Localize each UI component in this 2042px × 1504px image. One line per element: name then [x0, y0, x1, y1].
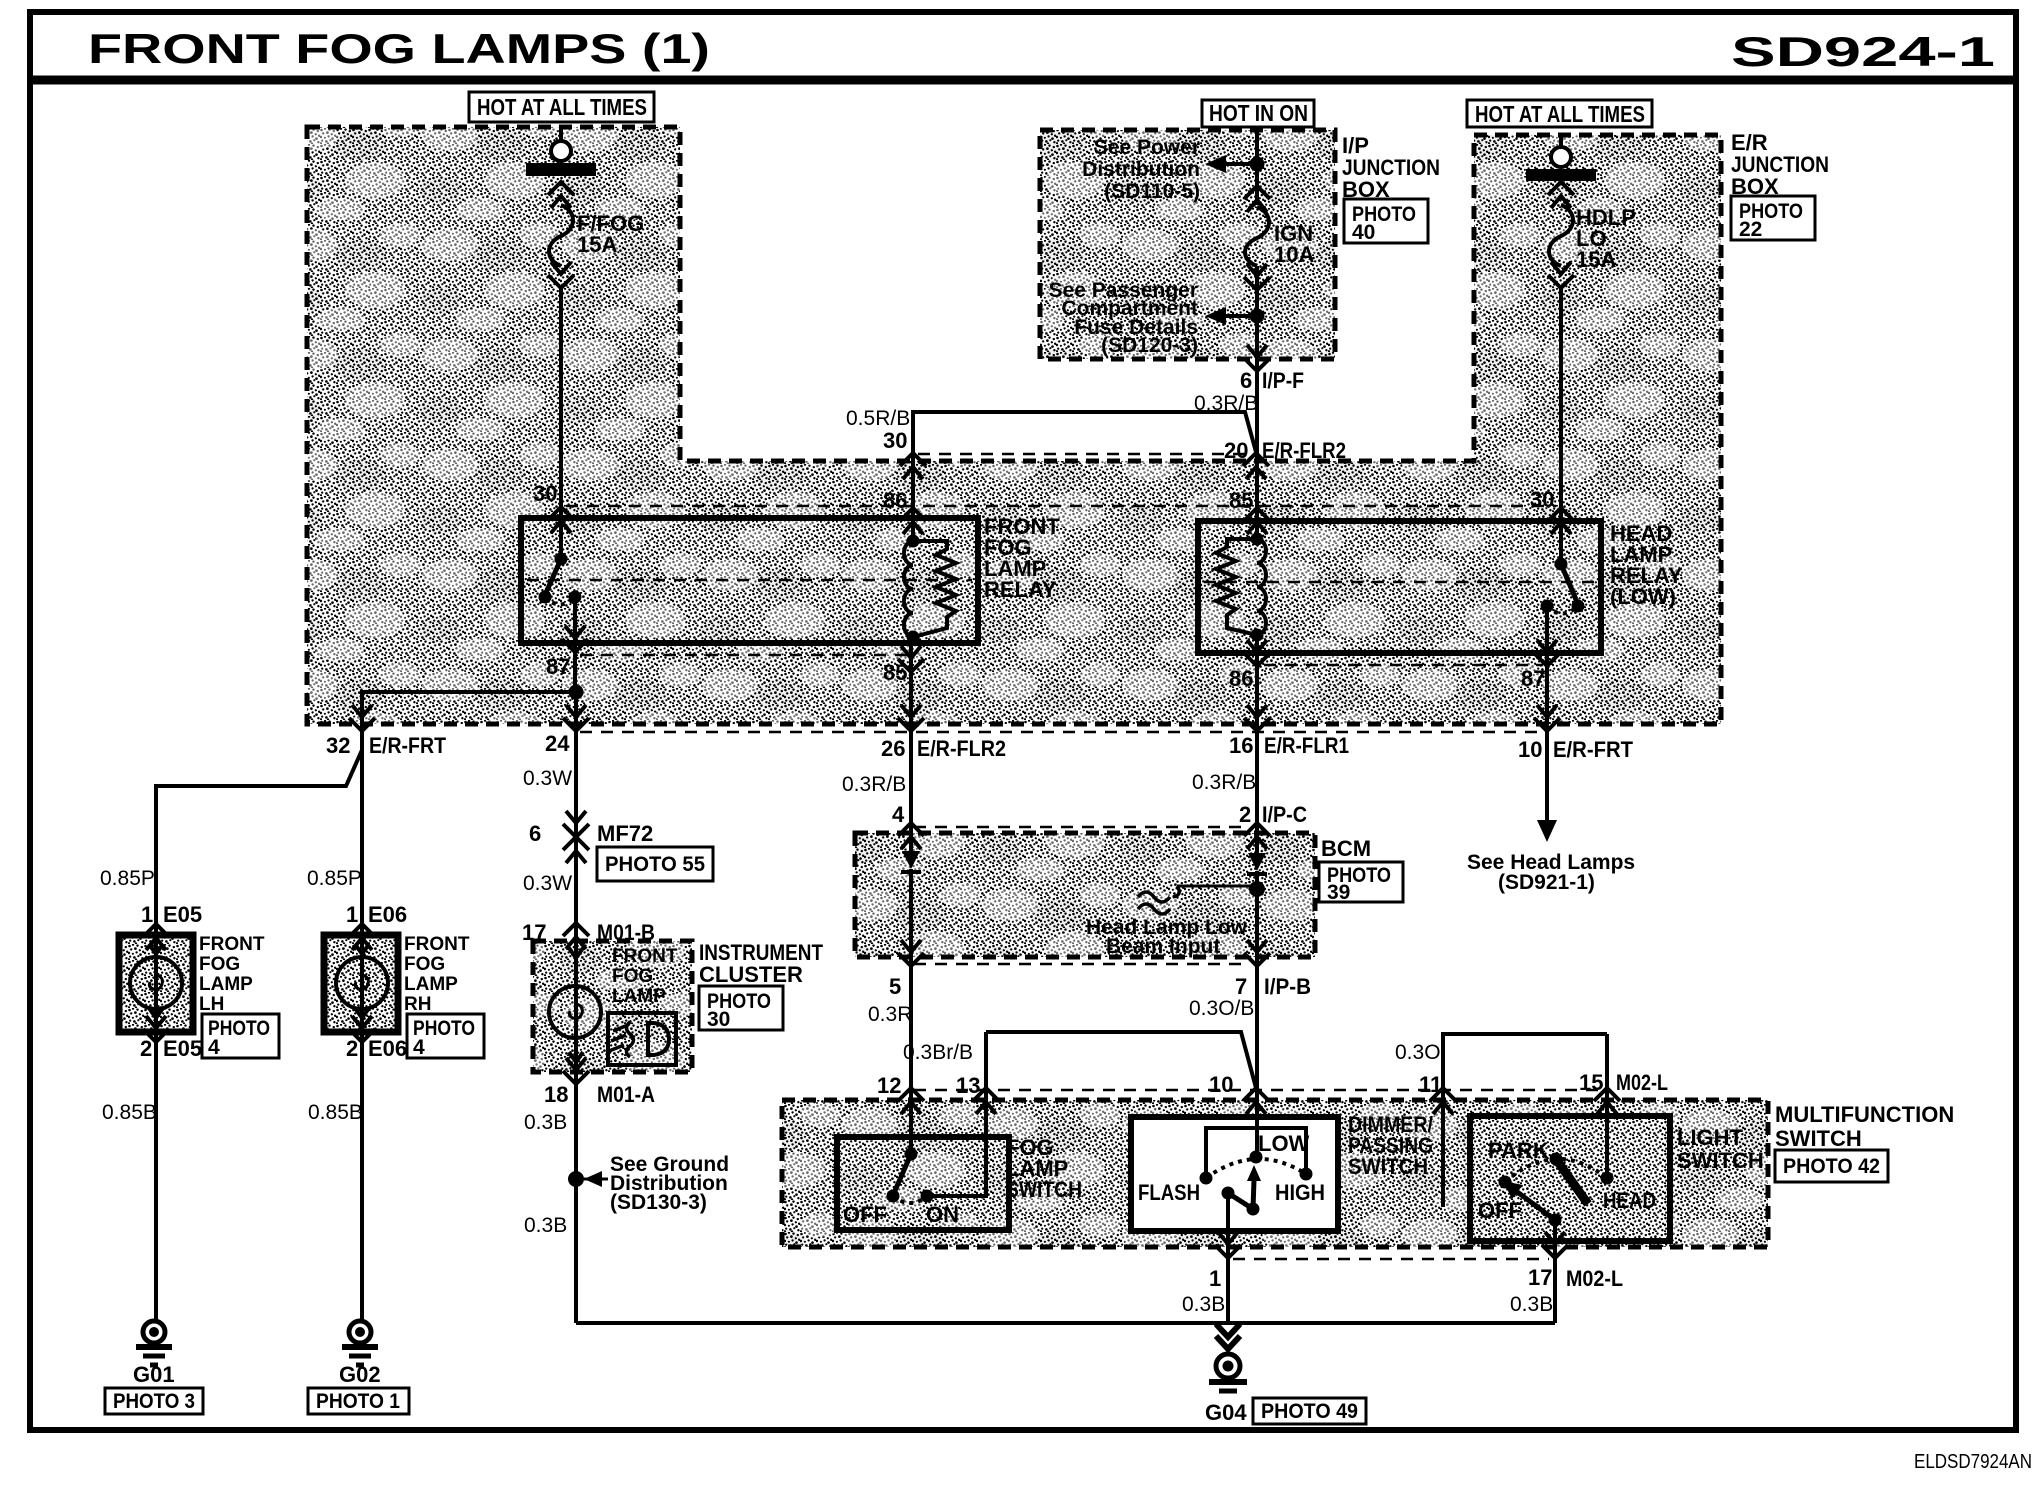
svg-text:HEAD: HEAD — [1603, 1188, 1656, 1213]
svg-text:0.5R/B: 0.5R/B — [846, 407, 910, 430]
head lamp low beam input squiggle — [1138, 886, 1179, 914]
relay internal dashed divider (fog) — [527, 579, 972, 581]
instrument cluster front fog lamp bulb — [549, 948, 601, 1062]
connector pin 10 E/R-FRT — [1534, 705, 1560, 731]
connector pin 17 M02-L out of multifunction switch — [1542, 1232, 1568, 1258]
wire: head relay switch output pin 87 to E/R-FRT pin 10 — [1545, 606, 1549, 765]
svg-text:4: 4 — [413, 1036, 425, 1059]
svg-text:2: 2 — [140, 1036, 152, 1061]
node: fog relay output junction — [569, 685, 584, 700]
svg-text:30: 30 — [707, 1008, 730, 1031]
connector pin 1 E05 — [143, 924, 169, 950]
thin dashed connector row line E/R-FLR2 pins 30/20 — [918, 453, 1250, 455]
svg-text:RH: RH — [404, 994, 431, 1015]
svg-text:HOT AT ALL TIMES: HOT AT ALL TIMES — [477, 94, 647, 120]
svg-text:SWITCH: SWITCH — [1677, 1148, 1764, 1173]
instrument cluster region — [533, 941, 692, 1072]
fog lamp switch blade — [894, 1154, 911, 1193]
svg-text:E05: E05 — [163, 1036, 202, 1061]
svg-text:2: 2 — [346, 1036, 358, 1061]
connector pin 2 E05 — [143, 1016, 169, 1042]
svg-text:PHOTO 49: PHOTO 49 — [1261, 1400, 1358, 1423]
node: I/P power distribution tap — [1250, 157, 1265, 172]
svg-text:ON: ON — [926, 1202, 959, 1227]
wire: RH lamp internal — [360, 935, 364, 1032]
svg-text:86: 86 — [883, 488, 907, 513]
connector pin 30 into fog relay — [548, 507, 574, 533]
svg-text:(LOW): (LOW) — [1610, 584, 1676, 609]
svg-text:15: 15 — [1579, 1070, 1603, 1095]
connector pin 86 out of head relay — [1244, 640, 1270, 666]
wire: F/FOG fuse feed stub — [559, 127, 563, 141]
wire: see head lamps arrow lead — [1545, 765, 1549, 824]
svg-text:I/P-B: I/P-B — [1264, 974, 1311, 999]
front fog lamp RH box — [324, 935, 398, 1032]
multifunction switch region — [782, 1100, 1768, 1247]
wire: I/P junction feed to IGN fuse — [1255, 130, 1259, 205]
svg-text:M01-B: M01-B — [597, 920, 655, 945]
thin dashed connector row E/R pins 24/26/16/10 — [580, 731, 1540, 733]
fog relay switch throw arc — [545, 597, 575, 605]
svg-text:26: 26 — [881, 736, 905, 761]
svg-text:12: 12 — [877, 1073, 901, 1098]
svg-text:30: 30 — [883, 428, 907, 453]
svg-text:PARK: PARK — [1488, 1138, 1549, 1163]
connector pin 16 E/R-FLR1 — [1244, 705, 1270, 731]
svg-text:85: 85 — [883, 660, 907, 685]
svg-text:G04: G04 — [1205, 1400, 1247, 1425]
front fog lamp LH bulb — [130, 944, 182, 1018]
svg-text:See Power: See Power — [1094, 136, 1200, 159]
wire: see power distribution arrow lead — [1224, 162, 1257, 166]
svg-text:FOG: FOG — [612, 966, 653, 987]
photo box PHOTO 40 — [1344, 199, 1428, 243]
ground G01 — [136, 1321, 172, 1365]
connector pin 6 I/P-F — [1244, 345, 1270, 371]
svg-text:E/R-FLR2: E/R-FLR2 — [1262, 438, 1346, 463]
svg-text:1: 1 — [1209, 1266, 1221, 1291]
wire: 0.5R/B from fog relay pin 86 up and over to pin 20 — [913, 412, 1256, 458]
wire: head relay coil output pin 86 down through pin 16 into BCM pin 2 — [1255, 635, 1259, 855]
connector pin 30 E/R-FLR2 (0.5R/B) — [900, 453, 926, 479]
svg-text:4: 4 — [208, 1036, 220, 1059]
svg-text:0.3W: 0.3W — [523, 872, 572, 895]
connector pin 87 out of head relay — [1534, 640, 1560, 666]
svg-text:ELDSD7924AN: ELDSD7924AN — [1914, 1451, 2032, 1473]
svg-text:LAMP: LAMP — [199, 974, 253, 995]
svg-text:0.3R: 0.3R — [868, 1003, 912, 1026]
svg-text:E05: E05 — [163, 902, 202, 927]
label box HOT AT ALL TIMES (left) — [469, 92, 654, 122]
node: BCM head lamp low beam input — [1249, 881, 1265, 897]
connector pin 2 E06 — [349, 1016, 375, 1042]
connector pin 10 — [1243, 1088, 1269, 1114]
photo box PHOTO 3 — [105, 1388, 203, 1414]
svg-text:24: 24 — [545, 731, 570, 756]
svg-text:Beam Input: Beam Input — [1106, 935, 1220, 958]
svg-text:(SD120-3): (SD120-3) — [1101, 334, 1198, 357]
node: I/P fuse details tap — [1250, 309, 1265, 324]
head relay switch common node — [1555, 558, 1568, 571]
head relay switch blade — [1561, 564, 1577, 602]
front fog lamp RH bulb — [336, 944, 388, 1018]
wire: fog switch ON contact to pin 13, up to 0.3Br/B run — [927, 1032, 986, 1196]
fog relay switch common node — [555, 553, 568, 566]
connector pin 12 — [898, 1088, 924, 1114]
connector pin 85 into head relay — [1244, 508, 1270, 534]
connector pin 85 out of fog relay — [898, 646, 924, 672]
wire: see passenger compartment arrow lead — [1224, 314, 1257, 318]
svg-text:E/R-FLR2: E/R-FLR2 — [917, 736, 1006, 761]
svg-text:PHOTO 55: PHOTO 55 — [605, 853, 705, 876]
fog relay coil nodes — [907, 535, 920, 548]
wire: 0.85B LH lamp to ground G01 — [154, 1032, 158, 1321]
svg-text:OFF: OFF — [1478, 1198, 1522, 1223]
wire: BCM diode output 0.3R down through pin 5 and pin 12 to fog switch — [909, 869, 913, 1154]
svg-text:SWITCH: SWITCH — [1348, 1154, 1428, 1179]
svg-text:32: 32 — [326, 733, 350, 758]
connector pin 30 into head relay — [1548, 508, 1574, 534]
connector pin 1 out of multifunction switch — [1215, 1232, 1241, 1258]
engine room shaded zone (fuse/relay stipple region) — [307, 127, 1721, 724]
svg-text:6: 6 — [1240, 368, 1252, 393]
svg-text:I/P-F: I/P-F — [1262, 368, 1304, 393]
wire: fog relay coil output pin 85 down through pin 26 into BCM pin 4 — [909, 637, 913, 853]
svg-text:LAMP: LAMP — [612, 986, 666, 1007]
svg-text:(SD921-1): (SD921-1) — [1498, 871, 1595, 894]
dimmer switch throw arc — [1206, 1159, 1306, 1178]
connector pin 7 I/P-B out of BCM — [1244, 940, 1270, 966]
svg-text:FLASH: FLASH — [1138, 1180, 1200, 1205]
svg-text:OFF: OFF — [843, 1202, 887, 1227]
diode BCM right — [1247, 853, 1267, 874]
arrow to see ground distribution — [584, 1171, 602, 1187]
I/P junction box region — [1040, 130, 1335, 359]
connector pin 20 E/R-FLR2 — [1243, 453, 1269, 479]
svg-text:PHOTO 1: PHOTO 1 — [316, 1390, 400, 1413]
photo box PHOTO 1 — [308, 1388, 409, 1414]
fog lamp switch throw arc — [893, 1196, 927, 1203]
svg-text:5: 5 — [889, 974, 901, 999]
svg-text:2: 2 — [1239, 802, 1251, 827]
head relay coil — [1257, 539, 1266, 635]
svg-text:0.3R/B: 0.3R/B — [842, 773, 906, 796]
arrow to see passenger compartment fuse details — [1205, 307, 1226, 325]
svg-text:PHOTO 3: PHOTO 3 — [113, 1390, 195, 1413]
fog lamp indicator icon box — [608, 1013, 676, 1065]
head relay coil nodes — [1251, 533, 1264, 546]
svg-text:0.85B: 0.85B — [308, 1101, 363, 1124]
svg-text:1: 1 — [141, 902, 153, 927]
wire: IGN fuse output through pin 6, pin 20 into head relay pin 85 — [1255, 266, 1259, 539]
svg-text:FRONT: FRONT — [404, 934, 470, 955]
svg-text:0.3B: 0.3B — [524, 1111, 567, 1134]
wire: 0.3Br/B horizontal run to dimmer pin 10 — [986, 1032, 1256, 1088]
arrow to see power distribution — [1205, 155, 1226, 173]
svg-text:17: 17 — [1528, 1265, 1552, 1290]
svg-text:0.3Br/B: 0.3Br/B — [903, 1041, 973, 1064]
svg-text:10: 10 — [1518, 737, 1542, 762]
fuse F/FOG 15A — [548, 182, 574, 288]
connector pin 17 M01-B — [563, 923, 589, 949]
wire: 0.85B RH lamp to ground G02 — [360, 1032, 364, 1321]
connector pin 4 into BCM — [898, 823, 924, 849]
fog relay coil — [904, 541, 913, 637]
fog lamp switch contacts — [887, 1190, 900, 1203]
svg-text:E/R-FRT: E/R-FRT — [1553, 737, 1634, 762]
svg-text:0.3R/B: 0.3R/B — [1194, 392, 1258, 415]
svg-text:0.3O: 0.3O — [1395, 1041, 1441, 1064]
svg-text:0.3W: 0.3W — [523, 767, 572, 790]
svg-text:SWITCH: SWITCH — [1006, 1177, 1082, 1202]
svg-text:0.85P: 0.85P — [307, 867, 362, 890]
svg-text:LIGHT: LIGHT — [1677, 1125, 1744, 1150]
photo box PHOTO 30 — [699, 986, 783, 1030]
svg-text:I/P-C: I/P-C — [1262, 802, 1307, 827]
wire: 0.3O run from dimmer pin 11 over to light switch pin 15 — [1443, 1034, 1607, 1207]
connector pin 13 — [973, 1088, 999, 1114]
svg-text:G02: G02 — [339, 1362, 381, 1387]
svg-text:10: 10 — [1209, 1072, 1233, 1097]
connector pin 24 — [563, 705, 589, 731]
svg-text:0.3B: 0.3B — [1182, 1293, 1225, 1316]
connector pin 32 E/R-FRT — [349, 705, 375, 731]
dimmer/passing switch box — [1131, 1117, 1338, 1231]
thin dashed row below head relay pins 86/87 — [1264, 664, 1543, 666]
wire: 0.3B ground bus to G04 — [576, 1321, 1555, 1325]
node: see ground distribution junction — [568, 1171, 584, 1187]
svg-text:87: 87 — [1521, 666, 1545, 691]
thin dashed connector row multifunction pins 12/13/10/11/15 — [914, 1089, 1602, 1091]
svg-text:39: 39 — [1327, 881, 1350, 904]
svg-text:Distribution: Distribution — [1082, 158, 1200, 181]
wire: light switch HEAD contact feed from pin 15 — [1605, 1034, 1609, 1178]
svg-text:0.3O/B: 0.3O/B — [1189, 997, 1254, 1020]
dimmer switch blade arrow — [1247, 1165, 1261, 1209]
dimmer switch contacts FLASH/LOW/HIGH — [1200, 1172, 1213, 1185]
label FRONT FOG LAMP LH — [199, 934, 678, 1015]
light switch thick blade — [1558, 1162, 1588, 1204]
title separator thick bar — [27, 76, 2018, 85]
svg-text:FOG: FOG — [199, 954, 240, 975]
svg-text:HOT AT ALL TIMES: HOT AT ALL TIMES — [1475, 101, 1645, 127]
fog relay resistor — [913, 541, 956, 637]
connector pin 1 E06 — [349, 924, 375, 950]
svg-text:20: 20 — [1224, 438, 1248, 463]
svg-text:4: 4 — [892, 802, 905, 827]
head relay resistor — [1216, 539, 1257, 635]
fuse IGN 10A — [1244, 186, 1270, 290]
svg-text:FRONT FOG LAMPS (1): FRONT FOG LAMPS (1) — [88, 25, 710, 72]
svg-text:30: 30 — [1530, 487, 1554, 512]
svg-text:PHOTO 42: PHOTO 42 — [1783, 1155, 1880, 1178]
svg-text:LAMP: LAMP — [404, 974, 458, 995]
relay internal dashed divider (head) — [1204, 581, 1595, 583]
wire: see ground distribution arrow lead — [584, 1178, 608, 1181]
photo box PHOTO 4 (LH) — [202, 1014, 279, 1058]
ground G04 — [1209, 1354, 1247, 1391]
wire: dimmer wiper to pin 1 and ground bus — [1226, 1193, 1230, 1323]
svg-text:15A: 15A — [577, 232, 617, 257]
svg-text:30: 30 — [533, 481, 557, 506]
connector pin 18 M01-A — [563, 1058, 589, 1084]
light switch pivot — [1549, 1214, 1562, 1227]
label box HOT AT ALL TIMES (right) — [1467, 100, 1652, 127]
svg-text:85: 85 — [1229, 488, 1253, 513]
wire: 0.85P RH lamp column — [360, 750, 364, 935]
thin dashed connector row BCM pins 5/7 — [914, 963, 1250, 965]
fog lamp switch common node — [905, 1148, 918, 1161]
thin dashed row below fog relay pins 87/85 — [580, 654, 910, 656]
front fog lamp relay box — [521, 518, 978, 643]
svg-text:0.3B: 0.3B — [524, 1214, 567, 1237]
svg-text:87: 87 — [546, 654, 570, 679]
wire: BCM head lamp low beam input link — [1177, 885, 1257, 888]
svg-text:0.3B: 0.3B — [1510, 1293, 1553, 1316]
wire: fog relay pin 86 entry — [911, 458, 915, 541]
svg-text:10A: 10A — [1274, 242, 1314, 267]
photo box PHOTO 22 — [1731, 196, 1815, 240]
svg-text:M02-L: M02-L — [1616, 1070, 1668, 1095]
svg-text:1: 1 — [346, 902, 358, 927]
fog lamp switch box — [837, 1137, 1009, 1230]
svg-text:6: 6 — [529, 821, 541, 846]
wire: HDLP fuse feed stub — [1559, 135, 1563, 147]
arrow: see head lamps — [1537, 820, 1557, 842]
thin dashed connector row line relay pins 30/86/85/30 — [566, 505, 1556, 507]
head relay switch contacts — [1572, 600, 1585, 613]
svg-text:0.85P: 0.85P — [100, 867, 155, 890]
svg-text:MULTIFUNCTION: MULTIFUNCTION — [1775, 1102, 1954, 1127]
wire: BCM node to pin 7 I/P-B, 0.3O/B down to dimmer LOW contact — [1255, 871, 1259, 1157]
wire: slant from pin 32 branch to LH lamp column — [156, 750, 362, 935]
dimmer switch pivot and link — [1222, 1187, 1235, 1200]
svg-text:MF72: MF72 — [597, 821, 653, 846]
photo box PHOTO 55 — [597, 847, 713, 881]
connector pin 26 E/R-FLR2 — [898, 705, 924, 731]
svg-text:HOT IN ON: HOT IN ON — [1209, 100, 1308, 126]
svg-text:(SD130-3): (SD130-3) — [610, 1191, 707, 1214]
svg-text:FOG: FOG — [404, 954, 445, 975]
wire: 0.3W pin 24 / MF72 / M01-B column — [574, 692, 578, 986]
inline connector MF72 pin 6 — [563, 811, 589, 863]
svg-text:7: 7 — [1235, 974, 1247, 999]
svg-text:17: 17 — [522, 920, 546, 945]
thin dashed connector row M02-L pins 1/17 — [1233, 1258, 1549, 1260]
thin dashed connector row BCM pins 4/2 — [914, 826, 1250, 828]
svg-text:40: 40 — [1352, 221, 1375, 244]
photo box PHOTO 4 (RH) — [407, 1014, 484, 1058]
svg-text:G01: G01 — [133, 1362, 175, 1387]
svg-text:FRONT: FRONT — [612, 946, 678, 967]
photo box PHOTO 39 — [1319, 862, 1403, 902]
connector pin 15 M02-L — [1594, 1088, 1620, 1114]
svg-text:13: 13 — [956, 1073, 980, 1098]
svg-text:LOW: LOW — [1258, 1131, 1310, 1156]
svg-text:16: 16 — [1229, 733, 1253, 758]
fuse HDLP LO 15A — [1548, 182, 1574, 288]
svg-text:0.3R/B: 0.3R/B — [1192, 771, 1256, 794]
battery feed symbol (HDLP) — [1526, 147, 1596, 181]
svg-text:FRONT: FRONT — [199, 934, 265, 955]
wire: fog relay switch output to pin 87 and junction — [573, 597, 577, 692]
svg-text:M02-L: M02-L — [1566, 1266, 1623, 1291]
svg-text:86: 86 — [1229, 666, 1253, 691]
svg-text:LH: LH — [199, 994, 224, 1015]
ground G02 — [342, 1321, 378, 1365]
svg-text:BCM: BCM — [1321, 836, 1371, 861]
svg-text:E06: E06 — [368, 902, 407, 927]
svg-text:11: 11 — [1419, 1072, 1442, 1097]
wire: LH lamp internal — [154, 935, 158, 1032]
svg-text:E/R-FLR1: E/R-FLR1 — [1264, 733, 1349, 758]
ground arrow into G04 — [1216, 1324, 1240, 1349]
svg-text:(SD110-5): (SD110-5) — [1104, 180, 1200, 203]
svg-text:HIGH: HIGH — [1275, 1180, 1325, 1205]
connector pin 11 — [1430, 1088, 1456, 1114]
svg-text:15A: 15A — [1576, 247, 1616, 272]
head relay switch throw arc — [1547, 606, 1578, 614]
wire: light switch wiper to pin 17 M02-L and ground bus — [1553, 1220, 1557, 1323]
fog relay switch blade — [545, 559, 561, 595]
wire: F/FOG fuse to fog relay pin 30 — [559, 288, 563, 559]
svg-text:CLUSTER: CLUSTER — [699, 962, 803, 987]
connector pin 2 I/P-C into BCM — [1244, 823, 1270, 849]
connector pin 87 out of fog relay — [562, 626, 588, 652]
photo box PHOTO 49 — [1253, 1398, 1366, 1424]
head lamp relay (low) box — [1198, 521, 1601, 653]
wire: dimmer LOW frame — [1206, 1128, 1306, 1178]
front fog lamp LH box — [119, 935, 193, 1032]
svg-text:SD924-1: SD924-1 — [1731, 28, 1995, 75]
svg-text:M01-A: M01-A — [597, 1082, 655, 1107]
wire: HDLP fuse output to head relay pin 30 — [1559, 288, 1563, 564]
photo box PHOTO 42 — [1775, 1150, 1888, 1182]
wire: branch at junction to pin 32 E/R-FRT — [362, 692, 576, 750]
svg-text:0.85B: 0.85B — [102, 1101, 157, 1124]
fog relay switch contacts — [539, 591, 552, 604]
battery feed symbol (F/FOG) — [526, 141, 596, 176]
svg-text:SWITCH: SWITCH — [1775, 1126, 1862, 1151]
wire: M01 column through cluster lamp down to ground bus — [574, 986, 578, 1323]
svg-text:22: 22 — [1739, 218, 1762, 241]
diode BCM left — [901, 851, 921, 872]
connector pin 5 out of BCM — [898, 940, 924, 966]
svg-text:18: 18 — [544, 1082, 568, 1107]
svg-text:RELAY: RELAY — [984, 577, 1057, 602]
connector pin 86 into fog relay — [900, 508, 926, 534]
svg-text:E06: E06 — [368, 1036, 407, 1061]
svg-text:E/R-FRT: E/R-FRT — [369, 733, 446, 758]
label box HOT IN ON — [1202, 100, 1314, 127]
BCM region — [855, 833, 1315, 957]
light switch contacts PARK/OFF/HEAD — [1550, 1153, 1563, 1166]
light switch box — [1470, 1116, 1670, 1241]
light switch wiper arm with arrow — [1503, 1181, 1555, 1220]
light switch throw arc — [1505, 1159, 1607, 1182]
